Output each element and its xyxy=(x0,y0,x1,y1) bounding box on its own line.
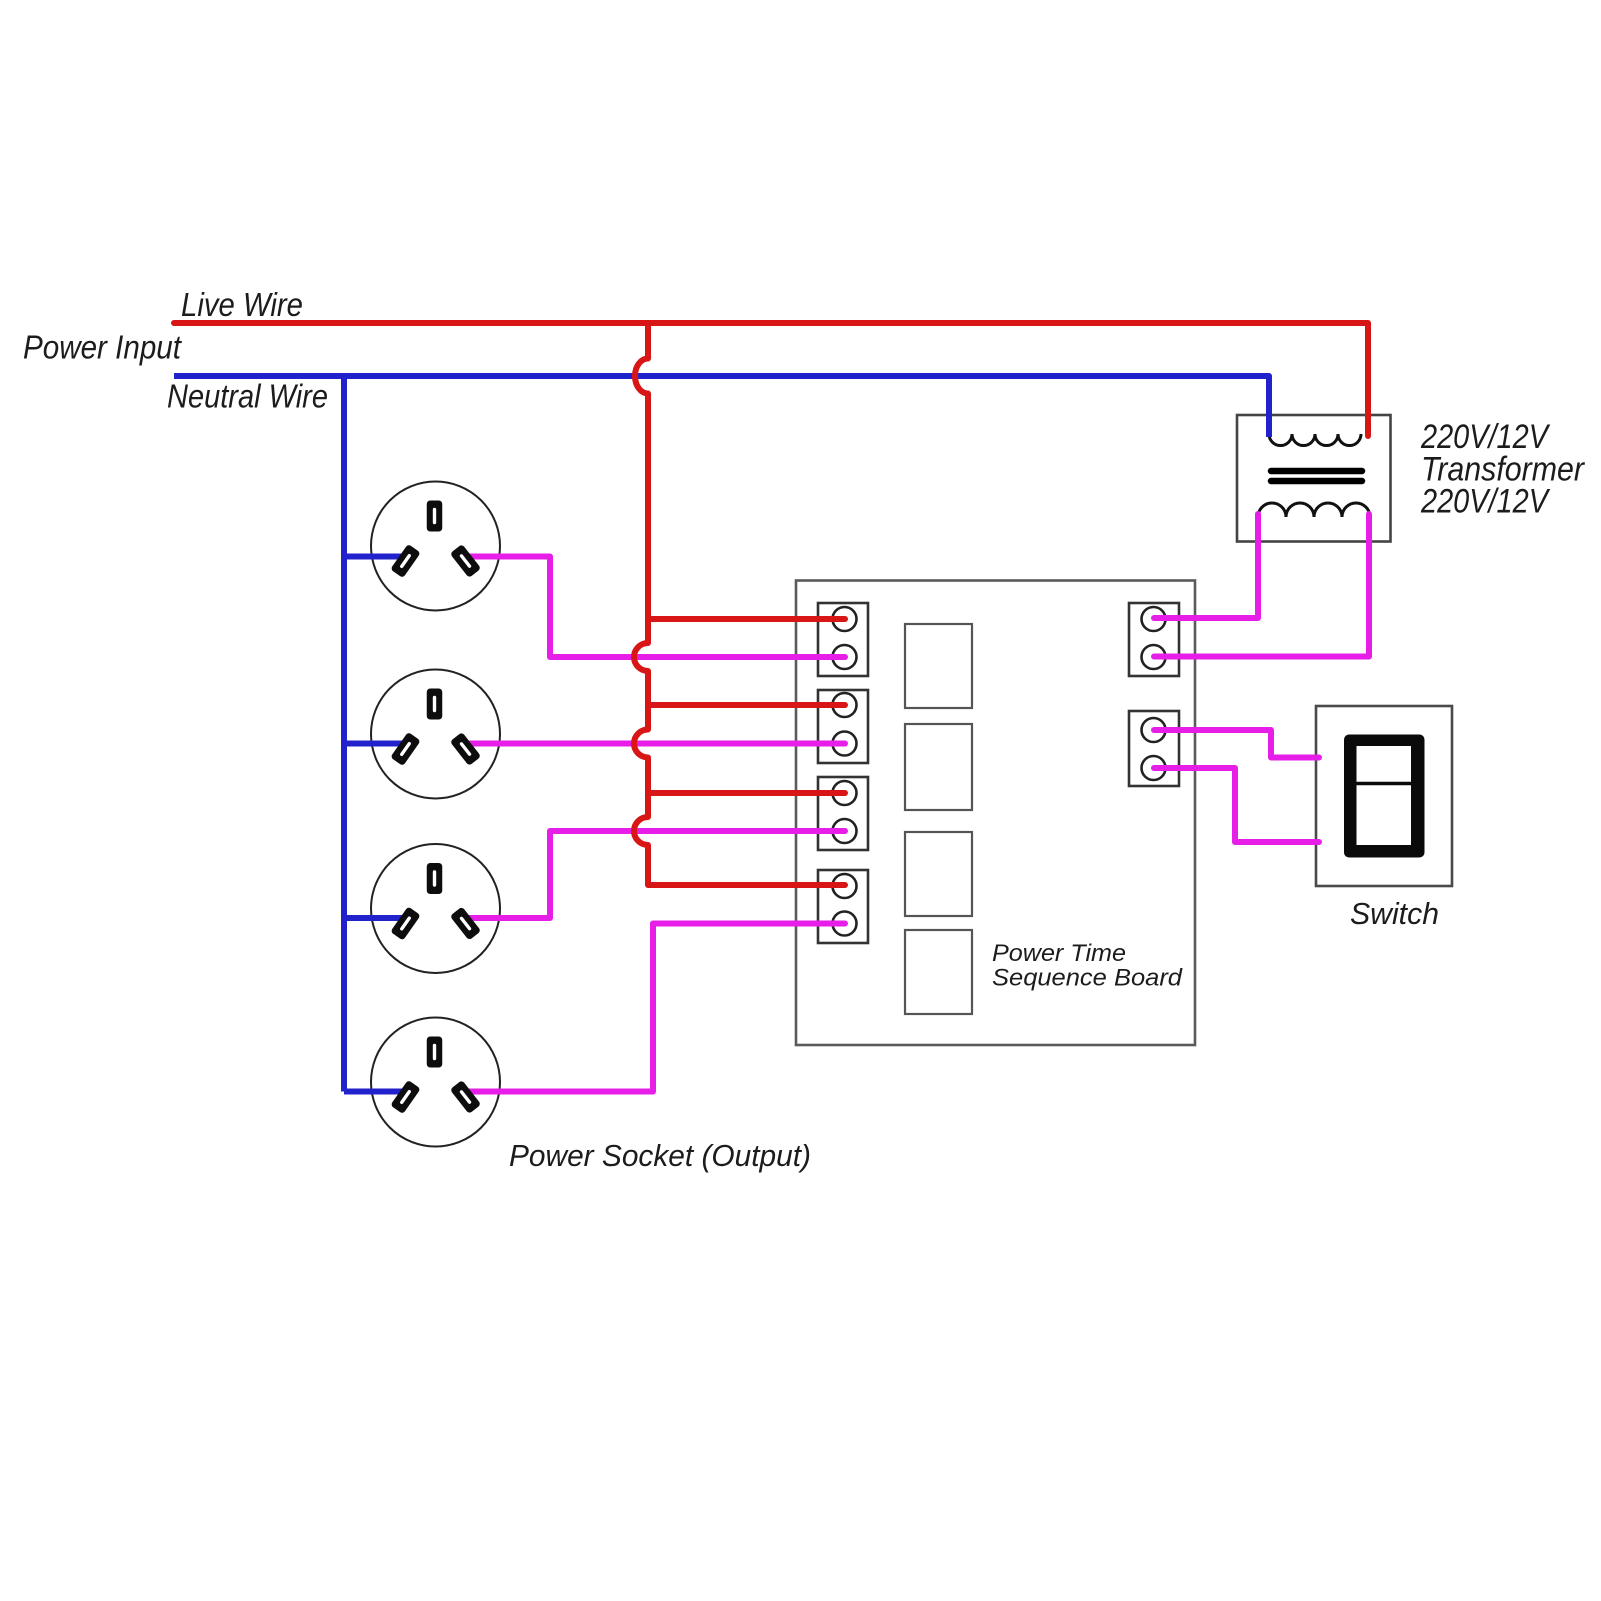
svg-text:Power Socket (Output): Power Socket (Output) xyxy=(509,1138,811,1173)
svg-text:Neutral Wire: Neutral Wire xyxy=(167,378,328,415)
svg-text:Switch: Switch xyxy=(1350,896,1439,931)
svg-text:Live Wire: Live Wire xyxy=(181,286,303,323)
svg-text:Power Input: Power Input xyxy=(23,329,183,366)
svg-text:Power Time: Power Time xyxy=(992,940,1126,967)
svg-text:220V/12V: 220V/12V xyxy=(1420,483,1551,521)
svg-text:Sequence Board: Sequence Board xyxy=(992,965,1183,992)
